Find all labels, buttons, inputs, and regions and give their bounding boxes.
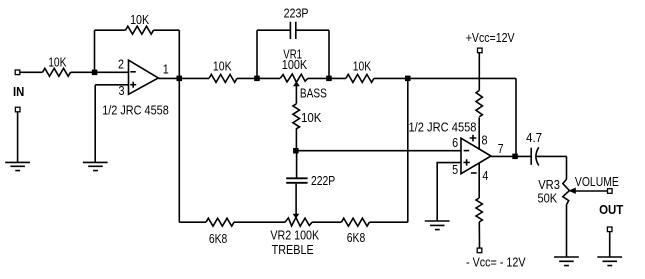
svg-text:10K: 10K [213,59,232,74]
wire node E down to C2 [296,151,298,178]
wire feedback left vertical [94,30,96,72]
potentiometer VR3 50K body [563,179,570,204]
svg-text:4: 4 [482,168,488,183]
wire R3 to node C [237,77,280,79]
svg-text:50K: 50K [538,191,558,206]
wire OUT to ground [609,232,611,257]
terminal +Vcc [478,48,483,53]
node C [254,76,260,82]
wire IN lower to ground [17,112,19,163]
terminal VOLUME out [608,189,613,194]
svg-text:1: 1 [163,62,169,77]
svg-text:6K8: 6K8 [209,231,227,246]
svg-text:10K: 10K [48,54,67,69]
svg-text:BASS: BASS [300,86,327,101]
wire U1 output [158,77,209,79]
wire VR1 wiper down [295,85,297,104]
wire C2 to VR2 wiper [295,184,297,215]
capacitor C1 223P loop left vertical [256,30,258,78]
svg-text:6: 6 [452,135,458,150]
wire right vertical rail x=179 [178,30,180,222]
svg-text:5: 5 [452,162,458,177]
ground VR3 [554,257,579,266]
wire down to VR3 [566,156,568,179]
op-amp U1 minus sign pin2 [130,71,136,73]
capacitor C1 plates [290,22,295,39]
node E (tone network center) [293,148,299,154]
resistor R9 (pin4 supply) [476,198,482,222]
resistor R8 (pin8 supply) [476,91,482,117]
ground U2 pin5 [425,221,450,230]
svg-text:10K: 10K [301,110,322,125]
wire R7 to feedback corner [374,77,516,79]
wire input to R1 [20,71,43,73]
wire feedback right vertical x=516 [515,78,517,156]
ground IN [5,162,30,170]
VR3 wiper arrow [570,188,576,193]
svg-text:7: 7 [498,141,504,156]
wire pin3 ground vertical [94,85,96,163]
svg-text:6K8: 6K8 [347,230,365,245]
svg-text:VR2 100K: VR2 100K [270,228,319,243]
op-amp U1 plus sign pin3 [130,82,136,88]
op-amp U2 plus sign top (V+) [470,135,477,142]
capacitor C3 4.7 curved plate [536,147,539,165]
resistor R7 10K [346,74,374,82]
wire R6 to right rail [369,221,407,223]
capacitor C1 loop right vertical [328,30,330,78]
svg-text:- Vcc= - 12V: - Vcc= - 12V [466,254,526,269]
svg-text:4.7: 4.7 [526,130,542,145]
terminal IN upper [15,70,20,75]
node F (feedback tap) [405,76,411,82]
VR1 wiper arrow [294,82,299,86]
capacitor C2 222P plates [286,178,307,183]
node B (U1 output) [177,76,183,82]
wire feedback top right [154,29,180,31]
svg-text:1/2 JRC 4558: 1/2 JRC 4558 [102,103,169,118]
wire VR1 to node D [308,77,346,79]
wire C3 to VR3 [537,155,567,157]
wire pin4 down [478,163,480,198]
resistor R3 10K [209,74,237,82]
op-amp U2 minus sign bottom (V-) [471,172,477,174]
terminal OUT [607,227,612,232]
svg-text:2: 2 [118,57,124,72]
wire node E to U2 pin6 [297,150,461,152]
resistor R2 10K feedback [126,26,154,34]
wire VR3 wiper to OUT terminal [574,190,608,192]
node A (inverting input junction) [92,70,98,76]
wire R9 to -Vcc terminal [478,222,480,248]
svg-text:100K: 100K [282,57,308,72]
wire VR3 to ground [566,205,568,257]
node G (U2 output) [512,154,518,160]
svg-text:VOLUME: VOLUME [575,174,619,189]
op-amp U2 plus sign pin5 [463,159,469,165]
wire pin5 to ground [437,163,461,221]
resistor R1 10K [43,68,71,76]
wire U2 output [491,155,531,157]
terminal -Vcc [477,248,482,253]
wire VR2 to R6 [312,221,341,223]
svg-text:+Vcc=12V: +Vcc=12V [466,30,515,45]
capacitor C1 wire top left [257,29,290,31]
wire bottom rail left [179,221,206,223]
capacitor C3 4.7 straight plate [530,148,532,165]
wire R4 to node E [295,128,297,150]
wire pin3 horizontal [95,84,128,86]
op-amp U1 triangle [129,60,159,94]
svg-text:IN: IN [13,85,24,99]
svg-text:1/2 JRC 4558: 1/2 JRC 4558 [409,119,477,134]
resistor R5 6K8 [206,218,234,226]
wire R1 to node A [71,71,129,73]
terminal IN lower [15,107,20,112]
wire right rail x=408 [407,78,409,222]
svg-text:223P: 223P [284,6,309,21]
svg-text:TREBLE: TREBLE [272,242,314,257]
ground op-amp U1 [83,162,108,170]
svg-text:222P: 222P [311,173,335,188]
wire feedback top left [95,29,126,31]
op-amp U2 triangle [461,138,491,174]
wire R8 to pin8 [478,118,480,151]
potentiometer VR2 100K body [285,217,312,226]
op-amp U2 minus sign pin6 [464,150,470,152]
wire R5 to VR2 [234,221,285,223]
capacitor C1 wire top right [296,29,329,31]
svg-text:10K: 10K [353,58,372,73]
svg-text:8: 8 [482,132,488,147]
node D [326,76,332,82]
wire +Vcc down [478,53,480,91]
potentiometer VR1 100K body [280,74,308,82]
VR2 wiper arrow [294,214,299,217]
resistor R4 10K vertical [293,104,300,129]
svg-text:3: 3 [119,83,125,98]
ground OUT [597,257,622,266]
svg-text:OUT: OUT [599,203,623,217]
resistor R6 6K8 [341,218,369,226]
svg-text:10K: 10K [130,12,149,27]
